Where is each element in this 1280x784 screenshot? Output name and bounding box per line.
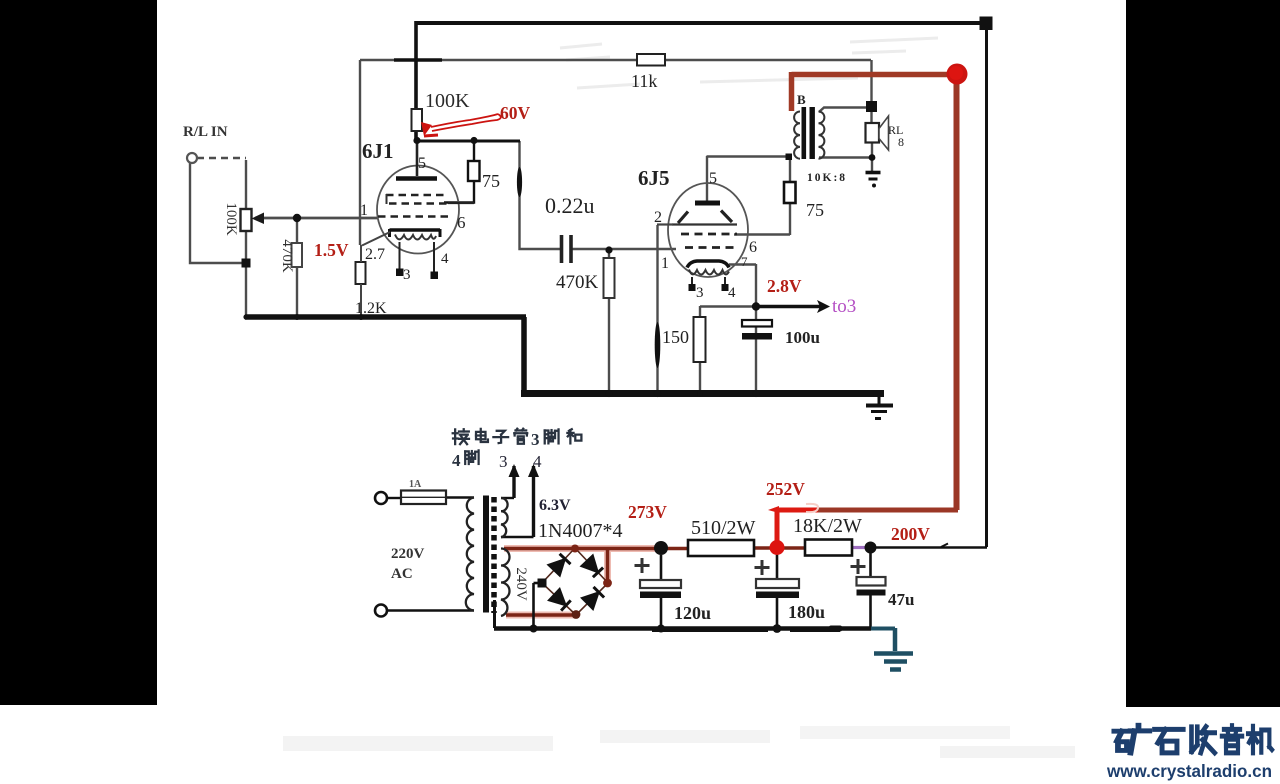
svg-text:10K:8: 10K:8 (807, 172, 847, 184)
svg-text:2.8V: 2.8V (767, 276, 802, 296)
svg-text:3: 3 (531, 430, 540, 449)
svg-text:220V: 220V (391, 546, 425, 562)
svg-text:510/2W: 510/2W (691, 517, 756, 539)
svg-text:2.7: 2.7 (365, 246, 385, 263)
svg-text:B: B (797, 92, 806, 107)
svg-text:R/L IN: R/L IN (183, 124, 228, 140)
svg-text:1.5V: 1.5V (314, 240, 349, 260)
svg-text:120u: 120u (674, 603, 711, 623)
svg-text:6J5: 6J5 (638, 166, 670, 190)
svg-text:4: 4 (441, 251, 449, 267)
svg-text:6: 6 (457, 213, 466, 232)
svg-text:www.crystalradio.cn: www.crystalradio.cn (1106, 761, 1272, 781)
svg-text:180u: 180u (788, 602, 825, 622)
svg-text:1A: 1A (409, 479, 422, 490)
svg-text:5: 5 (418, 155, 426, 172)
svg-text:1: 1 (360, 202, 368, 219)
svg-text:100K: 100K (223, 202, 239, 236)
svg-text:470K: 470K (279, 239, 295, 273)
svg-text:3: 3 (499, 452, 508, 471)
svg-text:4: 4 (533, 452, 542, 471)
svg-text:4: 4 (728, 285, 736, 301)
svg-text:6: 6 (749, 239, 757, 256)
svg-text:8: 8 (898, 135, 904, 149)
svg-text:5: 5 (709, 170, 717, 187)
svg-text:4: 4 (452, 451, 461, 470)
svg-text:0.22u: 0.22u (545, 193, 595, 218)
svg-text:6J1: 6J1 (362, 139, 394, 163)
svg-text:11k: 11k (631, 71, 657, 91)
svg-text:3: 3 (696, 285, 704, 301)
svg-text:200V: 200V (891, 524, 930, 544)
svg-text:100K: 100K (425, 90, 470, 112)
svg-text:273V: 273V (628, 502, 667, 522)
svg-text:to3: to3 (832, 296, 856, 317)
svg-text:252V: 252V (766, 479, 805, 499)
svg-text:75: 75 (482, 171, 500, 191)
svg-text:1N4007*4: 1N4007*4 (538, 520, 622, 542)
svg-text:18K/2W: 18K/2W (793, 515, 862, 537)
svg-text:47u: 47u (888, 590, 914, 609)
svg-text:75: 75 (806, 200, 824, 220)
svg-text:100u: 100u (785, 328, 820, 347)
svg-text:1: 1 (661, 255, 669, 272)
svg-text:AC: AC (391, 566, 413, 582)
svg-text:470K: 470K (556, 272, 599, 293)
svg-text:60V: 60V (500, 103, 531, 123)
svg-text:2: 2 (654, 209, 662, 226)
svg-text:240V: 240V (513, 567, 529, 601)
svg-text:150: 150 (662, 327, 689, 347)
svg-text:1.2K: 1.2K (355, 300, 387, 317)
svg-text:3: 3 (403, 267, 411, 283)
svg-text:6.3V: 6.3V (539, 497, 571, 514)
svg-text:7: 7 (741, 254, 748, 269)
